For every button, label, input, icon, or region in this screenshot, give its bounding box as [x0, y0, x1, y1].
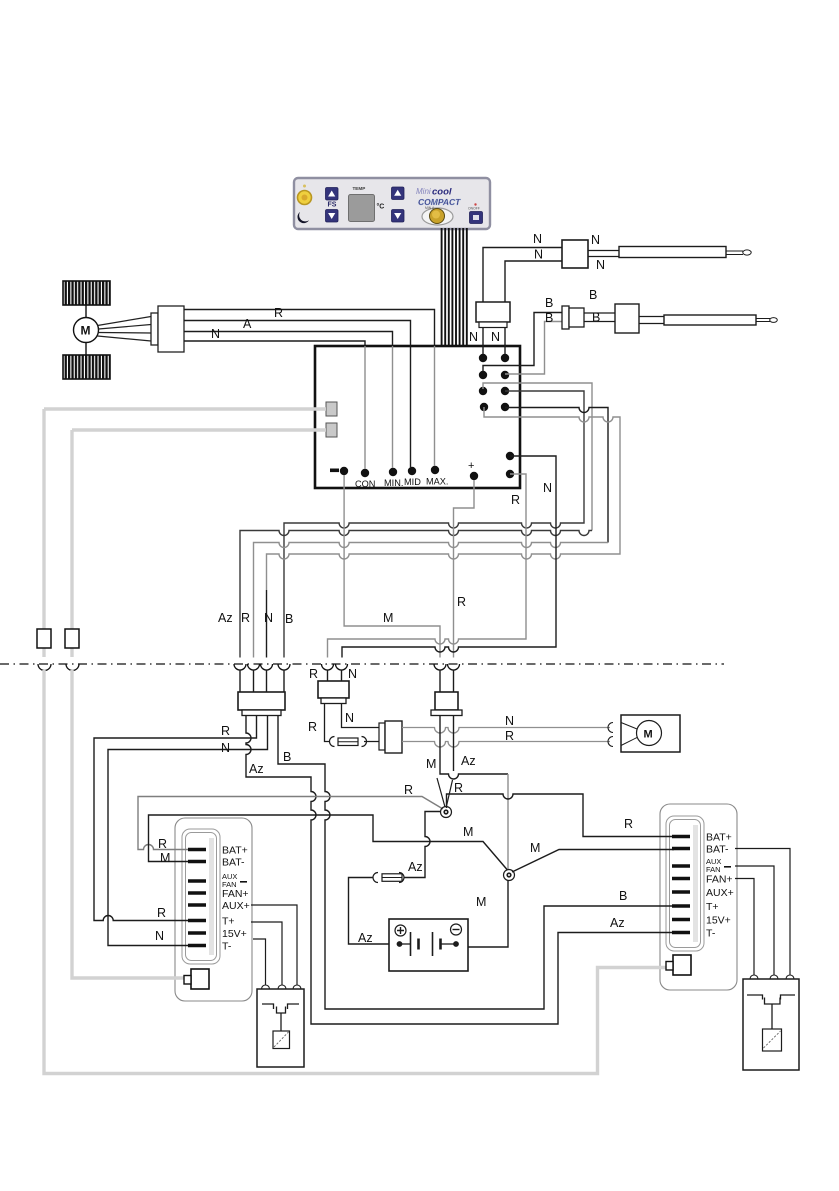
wire Az from 4pin pin1 to right module T-: [246, 716, 674, 1025]
panel yellow round button 2: [430, 209, 445, 224]
panel FS down button: [326, 210, 339, 223]
svg-text:Az: Az: [249, 762, 264, 776]
svg-text:T-: T-: [222, 941, 232, 953]
svg-text:M: M: [530, 841, 540, 855]
motor connector plate J2a: [151, 313, 158, 345]
svg-text:15V+: 15V+: [706, 915, 731, 927]
svg-text:R: R: [157, 906, 166, 920]
svg-text:Az: Az: [461, 754, 476, 768]
panel LCD display: [349, 195, 375, 222]
svg-text:T+: T+: [222, 916, 235, 928]
fan shaft top: [85, 281, 87, 318]
label minus: [330, 469, 339, 473]
wire M from junction B down to battery minus: [468, 880, 508, 947]
wire bus3 riser lower part: [253, 590, 255, 658]
wire M compressor riser to junction B: [507, 774, 509, 869]
battery plus symbol: [395, 925, 406, 936]
evaporator sensor probe tip: [756, 318, 777, 323]
panel power LED: [303, 185, 306, 188]
svg-text:A: A: [243, 317, 252, 331]
relay1 contact symbol: [262, 1004, 299, 1031]
relay2 coil: [763, 1029, 782, 1051]
panel temp up button: [392, 187, 405, 200]
svg-text:Az: Az: [610, 916, 625, 930]
svg-text:°C: °C: [377, 203, 385, 211]
control box left connector pad 2: [326, 423, 337, 437]
wire N from left module T- to 4pin pin3: [108, 716, 268, 946]
grey cable vertical run 1: [42, 409, 45, 629]
wire R from box lower pin to R/N connector: [328, 474, 527, 658]
wire Az compressor vertical with hops: [453, 716, 455, 772]
svg-text:R: R: [505, 729, 514, 743]
svg-text:MAX.: MAX.: [426, 477, 448, 487]
svg-text:T+: T+: [706, 901, 719, 913]
wire N from box lower pin to R/N connector: [342, 456, 556, 658]
battery box: [389, 919, 468, 971]
wire N motor to CON terminal: [184, 341, 365, 346]
svg-text:M: M: [383, 611, 393, 625]
wire M from junction B to right module BAT-: [512, 850, 674, 873]
grey control cable upper to box pad1: [44, 407, 326, 410]
svg-text:R: R: [221, 724, 230, 738]
bundle connector body J3: [476, 302, 510, 322]
panel yellow button (power): [298, 191, 312, 205]
sensor S1 probe body: [619, 247, 726, 258]
panel right button: [470, 212, 483, 224]
svg-text:R: R: [511, 493, 520, 507]
wire R grey from left module BAT+ to junction A: [138, 797, 443, 850]
right module AUX FAN minus dash: [724, 866, 731, 868]
svg-text:R: R: [457, 595, 466, 609]
svg-text:B: B: [589, 288, 597, 302]
evaporator sensor block1: [569, 308, 584, 327]
wire Az diagonal into junction A: [447, 780, 453, 806]
control panel P1 (Mini cool COMPACT): [294, 178, 490, 229]
panel temp down button: [392, 210, 405, 223]
wire R to condenser fan: [402, 742, 610, 748]
coupler at partition N heater: [336, 664, 348, 670]
relay1 pin arcs: [262, 985, 302, 989]
wire bus1 B net: box row3 pin2 to 4pin connector pin4: [284, 391, 584, 658]
grey cable vertical run 2: [70, 430, 73, 629]
svg-text:FS: FS: [328, 202, 337, 209]
svg-text:M: M: [644, 729, 653, 741]
evaporator sensor probe body: [664, 315, 756, 325]
coupler at partition compressor M: [434, 664, 446, 670]
fan shaft bottom: [85, 343, 87, 356]
condenser fan motor box: [621, 715, 680, 752]
svg-text:B: B: [545, 296, 553, 310]
svg-text:BAT-: BAT-: [706, 844, 729, 856]
svg-text:B: B: [545, 311, 553, 325]
svg-text:T-: T-: [706, 928, 716, 940]
terminal dot plus: [470, 472, 478, 480]
sensor S1 twin lead: [588, 251, 619, 257]
wire bus3 R net bus run to 4pin connector pin2: [254, 543, 609, 591]
svg-text:AUX+: AUX+: [222, 900, 250, 912]
grey cable 1 stub and lower run to right module plug: [44, 648, 667, 1074]
coupler at partition grey cable 2: [66, 664, 79, 671]
svg-text:N: N: [469, 330, 478, 344]
svg-text:N: N: [155, 929, 164, 943]
compressor connector pigtails: [440, 670, 454, 692]
wire R motor to MID terminal: [184, 321, 411, 347]
svg-text:M: M: [476, 895, 486, 909]
wire minus/M from box to compressor connector pin M: [344, 475, 440, 658]
svg-text:B: B: [283, 750, 291, 764]
battery minus symbol: [451, 924, 462, 935]
left module terminal holder outer: [182, 829, 220, 964]
relay1 box: [257, 989, 304, 1067]
svg-text:N: N: [533, 232, 542, 246]
wire MAX inside box: [434, 346, 436, 466]
wire M compressor vertical with hops: [440, 716, 508, 780]
svg-text:FAN+: FAN+: [706, 874, 733, 886]
N sensor feed wires from box pins row1: [482, 302, 484, 354]
wire motor top (unlabelled) to MAX terminal: [184, 310, 435, 347]
evaporator sensor link wires: [584, 313, 615, 322]
right module relay wires: [735, 849, 790, 976]
compressor connector flange J7: [431, 710, 462, 716]
svg-text:N: N: [505, 714, 514, 728]
wire bus4 N net: box row4 pin1 to 4pin connector pin3: [267, 407, 621, 590]
terminal dot minus: [340, 467, 348, 475]
wire N2 to cabin sensor: [505, 261, 562, 302]
coupler at partition compressor Az: [448, 664, 460, 670]
right module terminal holder outer: [666, 816, 704, 951]
evaporator sensor plate: [562, 306, 569, 329]
wire R from left module T+ to 4pin pin2: [94, 716, 257, 921]
box right pin dots rows: [479, 354, 514, 478]
fuse F2 arcs: [330, 737, 367, 747]
relay1 coil: [273, 1031, 290, 1049]
wire bus4 riser lower part: [266, 590, 268, 658]
motor lead fan-out wires: [98, 317, 152, 342]
svg-text:BAT-: BAT-: [222, 857, 245, 869]
inline plug body J6: [385, 721, 402, 753]
coupler at partition B: [278, 664, 290, 670]
svg-text:R: R: [454, 781, 463, 795]
svg-text:MID: MID: [404, 477, 421, 487]
svg-text:MIN.: MIN.: [384, 478, 403, 488]
control box U1: [315, 346, 520, 488]
svg-text:M: M: [81, 324, 91, 338]
grey cable 1 bulkhead block: [37, 629, 51, 648]
blower fan bottom: [63, 355, 110, 379]
svg-text:Az: Az: [358, 931, 373, 945]
right module terminal labels: [706, 832, 732, 875]
wire MIN inside box: [392, 346, 394, 468]
svg-text:FAN+: FAN+: [222, 888, 249, 900]
wire N to condenser fan: [402, 728, 610, 734]
condenser coupler arcs: [608, 723, 613, 747]
junction B (negative feed): [504, 870, 515, 881]
svg-text:M: M: [426, 757, 436, 771]
4pin connector pigtails above body: [240, 670, 284, 692]
svg-text:B: B: [619, 889, 627, 903]
svg-text:N: N: [591, 233, 600, 247]
svg-text:M: M: [463, 825, 473, 839]
left module AUX FAN minus dash: [240, 881, 247, 883]
left module holder shading: [209, 838, 214, 955]
svg-text:BAT+: BAT+: [706, 832, 732, 844]
svg-text:15V+: 15V+: [222, 928, 247, 940]
wire B from 4pin pin4 to right module T+: [278, 716, 674, 1010]
fuse F1 body: [382, 874, 402, 882]
svg-text:R: R: [158, 837, 167, 851]
svg-text:+: +: [468, 460, 474, 472]
svg-text:TEMP: TEMP: [353, 186, 366, 191]
panel FS up button: [326, 188, 339, 201]
svg-text:BAT+: BAT+: [222, 845, 248, 857]
bulkhead dash-dot partition line: [0, 663, 724, 665]
4pin connector body J4: [238, 692, 285, 710]
cabin sensor connector S1: [562, 240, 588, 268]
terminal dot MIN: [389, 468, 397, 476]
svg-text:N: N: [211, 327, 220, 341]
svg-text:R: R: [624, 817, 633, 831]
wire Az fuse to junction A with hop: [404, 812, 441, 878]
blower fan top: [63, 281, 110, 305]
svg-text:Mini: Mini: [416, 187, 431, 196]
terminal dot CON: [361, 469, 369, 477]
wire bus2 Az net bus run to 4pin connector pin1: [240, 531, 592, 658]
svg-text:cool: cool: [432, 187, 452, 198]
svg-text:R: R: [241, 611, 250, 625]
coupler at partition R: [248, 664, 260, 670]
panel right small LED: [474, 203, 476, 205]
right control module body: [660, 804, 737, 990]
wire R black from junction A to right module BAT+: [447, 794, 675, 837]
left module relay wires: [251, 905, 297, 985]
grey cable 2 stub and lower run to left module plug: [72, 648, 184, 978]
coupler at partition R heater: [322, 664, 334, 670]
condenser fan motor M2: [637, 721, 662, 746]
panel Mini cool logo: [416, 187, 452, 198]
terminal dot MAX: [431, 466, 439, 474]
wire B2 from box row2 pin2 to evaporator sensor: [505, 322, 562, 375]
relay2 box: [743, 979, 799, 1070]
evaporator sensor twin lead: [639, 317, 664, 324]
R/N heater connector pigtails: [328, 670, 342, 681]
right module plug socket: [666, 955, 691, 975]
fuse F1 arcs: [373, 873, 404, 883]
fuse F2 body: [338, 738, 358, 746]
bundle connector lip J3: [479, 322, 507, 328]
battery cells: [397, 932, 458, 956]
svg-text:R: R: [309, 667, 318, 681]
svg-text:N: N: [543, 481, 552, 495]
svg-text:ONOFF: ONOFF: [468, 207, 480, 211]
left module terminal labels: [222, 845, 248, 890]
R/N heater connector body J5: [318, 681, 349, 698]
svg-text:N: N: [345, 711, 354, 725]
wire A motor to MIN terminal: [184, 332, 393, 347]
wire N1 to cabin sensor: [483, 248, 562, 303]
coupler at partition N: [261, 664, 273, 670]
svg-text:N: N: [491, 330, 500, 344]
right module terminal holder inner: [670, 820, 701, 948]
svg-text:N: N: [596, 258, 605, 272]
svg-text:R: R: [274, 306, 283, 320]
condenser fan motor leads: [621, 723, 637, 746]
left module plug socket: [184, 969, 209, 989]
relay2 contact symbol: [747, 995, 795, 1029]
wire bus3 R net feeder: box row4 pin2: [505, 408, 608, 543]
control box left connector pad 1: [326, 402, 337, 416]
left module terminal holder inner: [186, 833, 217, 961]
4pin connector lip J4: [242, 710, 281, 716]
grey cable 2 bulkhead block: [65, 629, 79, 648]
evaporator sensor block2: [615, 304, 639, 333]
svg-text:CON: CON: [355, 479, 375, 489]
R/N heater connector lip J5: [321, 698, 346, 704]
svg-text:R: R: [308, 720, 317, 734]
sensor S1 probe tip: [726, 250, 751, 255]
svg-text:R: R: [404, 783, 413, 797]
svg-text:N: N: [348, 667, 357, 681]
panel oval button bezel: [422, 208, 453, 225]
compressor connector body J7: [435, 692, 458, 710]
wire plus/R from box to compressor connector pin Az: [454, 480, 475, 658]
svg-text:B: B: [285, 612, 293, 626]
coupler at partition grey cable 1: [38, 664, 51, 671]
left control module body: [175, 818, 252, 1001]
cable bundle from panel to control box: [442, 228, 467, 346]
wire diagonal from M corner to junction A: [437, 778, 445, 807]
right module holder shading: [693, 825, 698, 942]
terminal dot MID: [408, 467, 416, 475]
junction A (positive feed): [441, 807, 452, 818]
panel moon icon: [298, 212, 309, 223]
svg-text:N: N: [221, 741, 230, 755]
motor connector body J2b: [158, 306, 184, 352]
wire CON inside box: [364, 346, 366, 469]
svg-text:Az: Az: [408, 860, 423, 874]
wire MID inside box: [410, 346, 412, 467]
inline plug plate J6: [379, 723, 385, 750]
svg-text:Az: Az: [218, 611, 233, 625]
grey control cable lower to box pad2: [72, 428, 326, 431]
motor M (evaporator blower): [74, 318, 99, 343]
wire N jog from connector to inline plug: [342, 704, 380, 728]
right module terminal blades: [672, 837, 690, 933]
wire M from left module BAT- to junction B: [149, 815, 508, 870]
svg-text:N: N: [264, 611, 273, 625]
wire bus2 Az net feeder: box row3 pin1: [483, 383, 592, 531]
wire Az battery plus to fuse: [349, 878, 390, 945]
wire R from connector through fuse to inline plug: [325, 704, 380, 742]
left module terminal blades: [188, 850, 206, 946]
coupler at partition Az: [234, 664, 246, 670]
svg-text:M: M: [160, 851, 170, 865]
svg-text:N: N: [534, 248, 543, 262]
relay2 pin arcs: [750, 975, 794, 979]
wire B1 from box row2 pin1 to evaporator sensor: [483, 313, 562, 372]
svg-text:AUX+: AUX+: [706, 887, 734, 899]
